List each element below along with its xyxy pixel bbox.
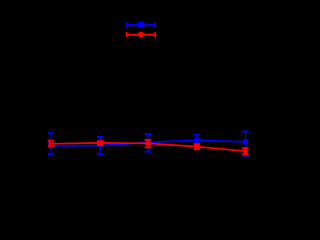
- bottom caps: [48, 145, 249, 154]
- line: [51, 143, 246, 151]
- top caps: [48, 132, 249, 137]
- error bars: [51, 132, 246, 156]
- bottom caps: [48, 146, 249, 156]
- red circle markers: [48, 141, 248, 154]
- legend: blue entry: [126, 22, 156, 28]
- blue square markers: [48, 138, 248, 147]
- error bars: [51, 140, 246, 154]
- red series (circles): [48, 140, 249, 154]
- blue series (squares): [48, 132, 249, 156]
- line: [51, 140, 246, 146]
- black left axis spine drawn over point 1: [51, 25, 53, 187]
- legend: red entry: [126, 32, 156, 38]
- top caps: [48, 140, 249, 148]
